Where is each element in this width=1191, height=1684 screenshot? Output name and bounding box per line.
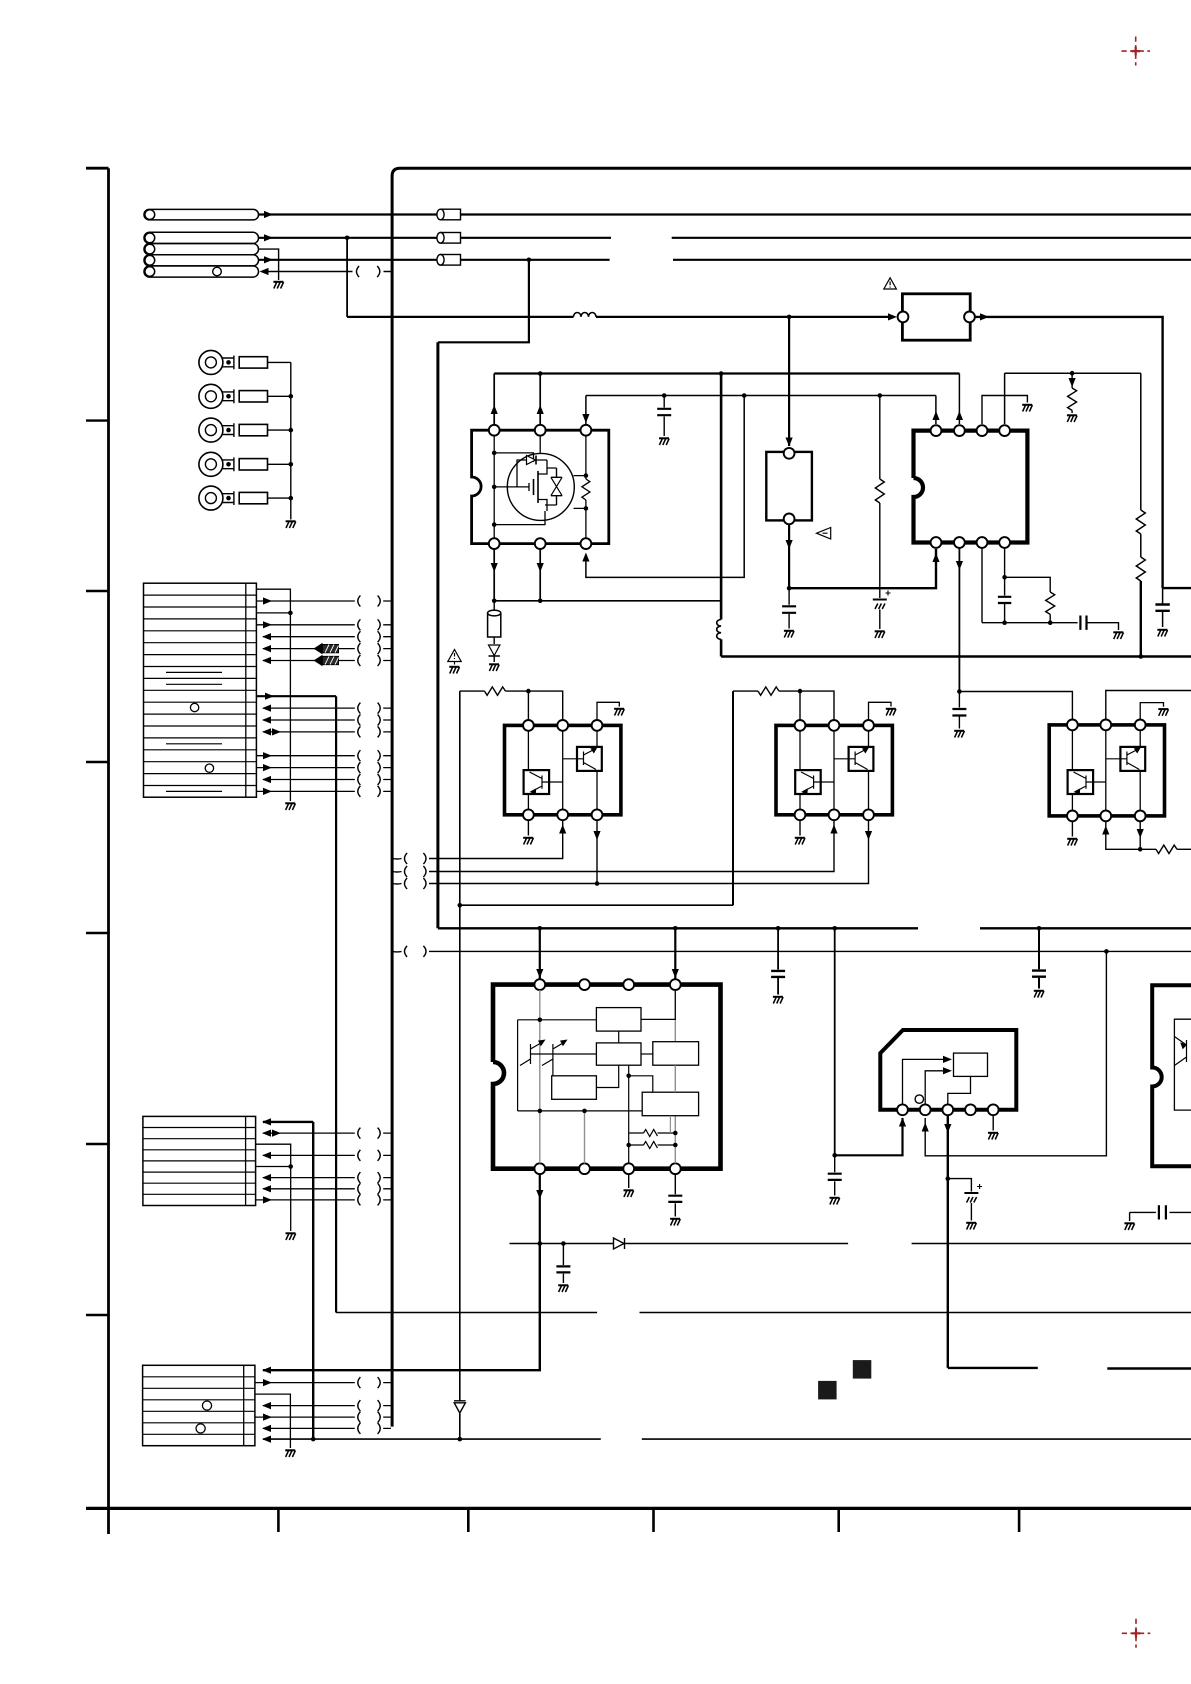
thick vertical 721 — [720, 374, 723, 620]
Q1 top pin 2 — [535, 425, 546, 436]
IC1 pin7 ground stem — [628, 1174, 630, 1188]
IC2 pin7 drop — [981, 548, 983, 623]
arrow up into M3 pin5 — [1102, 826, 1109, 835]
diode D2 on VFEED — [454, 1401, 466, 1413]
connector CN101 pill contact 1 — [144, 209, 259, 220]
M3 internal column 1 — [1071, 730, 1073, 810]
ground G4 — [489, 664, 499, 671]
Q1 bottom pin 6 — [581, 538, 592, 549]
riser IC2 pin4 — [1004, 373, 1006, 424]
capacitor C8 drop — [777, 928, 779, 994]
junction on W4 — [527, 258, 532, 263]
connector CN3 pin column divider — [243, 1365, 245, 1445]
M3 pin5 drive wire to edge — [1106, 821, 1156, 849]
connector CN1 pin column divider — [245, 583, 247, 797]
inductor L5 on vertical — [717, 620, 721, 640]
M2 bottom pin 5 — [829, 809, 840, 820]
arrow up on Q1 pin2 riser — [537, 405, 544, 414]
IC2 top pin 1 — [931, 425, 942, 436]
ground G16 — [1158, 709, 1168, 716]
connector CN101 pill 1 pin circle — [145, 210, 155, 220]
CN2 row7 wire — [263, 1188, 391, 1190]
wire W4 horizontal — [259, 259, 1191, 261]
M3 pin4 ground — [1071, 821, 1073, 836]
junction M2 pin1 riser — [798, 689, 803, 694]
wire fuse output to right — [975, 317, 1163, 588]
ground G24 — [988, 1133, 998, 1140]
arrow down Q1 pin4 — [491, 563, 498, 572]
IC1 pin4 supply drop — [674, 928, 676, 979]
capacitor C5 plates — [657, 409, 671, 415]
M1 pin5 drive drop — [429, 820, 563, 858]
rail yC right segment — [1005, 372, 1141, 374]
arrow up into M2 pin5 — [830, 825, 837, 834]
M2 internal column 3 — [868, 731, 870, 810]
arrow down from TH1 — [786, 540, 793, 549]
CN1 row7 wire — [263, 660, 391, 662]
page border left tick 4 — [86, 932, 109, 934]
arrow down from IC3 pin3 — [944, 1124, 951, 1133]
M1 top pin 1 — [523, 720, 534, 731]
capacitor C13 stem — [958, 692, 960, 729]
M1 internal column 1 — [527, 731, 529, 810]
arrow up into Q1 pin6 — [582, 553, 589, 562]
TH1 pin 1 — [784, 448, 795, 459]
IC2 pin6 long drop — [958, 548, 960, 692]
arrow into TH1 — [786, 438, 793, 447]
IC1 internal base row — [531, 1053, 597, 1055]
ground G12 — [523, 838, 533, 845]
transistor module M3 package — [1049, 725, 1164, 816]
page border bottom rule — [86, 1507, 1191, 1510]
ring terminal E4 — [199, 452, 223, 476]
main supply wire with inductor — [347, 316, 573, 318]
ground G11 — [614, 709, 624, 716]
arrow up into IC3 pin2 — [922, 1123, 929, 1132]
IC1 pin1 supply drop — [539, 928, 541, 979]
arrow down on M1 pin6 drop — [593, 831, 600, 840]
IC3 pin 4 — [965, 1104, 976, 1115]
M3 pin6 drop — [1139, 821, 1141, 849]
feed line y1312 — [336, 1312, 1191, 1314]
page border left tick 5 — [86, 1143, 109, 1145]
arrow down Q1 pin5 — [537, 563, 544, 572]
connector CN101 pill 5 pin circle — [145, 267, 155, 277]
ground G5 — [659, 438, 669, 445]
ferrite bead L1 on W1 — [441, 209, 461, 220]
CN1 row1 wire to ground column — [256, 589, 290, 801]
IC2 pin8 drop — [1004, 548, 1006, 577]
M2 internal column 1 — [799, 731, 801, 810]
arrow on W2 — [264, 234, 273, 241]
arrow into IC1 pin4 — [672, 969, 679, 978]
IC1 internal block B4 — [552, 1076, 597, 1100]
page border bottom tick 4 — [837, 1508, 840, 1532]
arrow up into IC2 pin2 — [956, 411, 963, 420]
IC1 internal top link — [518, 1019, 597, 1021]
capacitor C1 plates — [1155, 605, 1169, 611]
capacitor C15 — [834, 1155, 836, 1195]
IC2 top pin 4 — [999, 425, 1010, 436]
marker square 1 — [818, 1381, 837, 1400]
IC1 internal block B3 — [653, 1042, 699, 1066]
M1 pin3 ground loop — [597, 702, 619, 720]
M3 top pin 2 — [1100, 720, 1111, 731]
junction yA at vertical 721 — [719, 371, 724, 376]
arrow up into IC2 pin5 — [932, 553, 939, 562]
IC2 bottom pin 5 — [931, 537, 942, 548]
Q1 pin5 drop — [539, 549, 541, 601]
IC3 internal pin2 link — [925, 1071, 944, 1105]
warning symbol near F1 — [884, 278, 897, 289]
IC3 pin 5 — [988, 1104, 999, 1115]
CN3 row5 wire — [255, 1416, 391, 1418]
IC1 internal pin4 column — [674, 990, 676, 1163]
M3 internal column 3 — [1139, 730, 1141, 810]
Q1 internal source line — [494, 486, 529, 488]
CN1 row10 thick feed wire — [256, 695, 336, 697]
line y1439 left segment — [263, 1438, 601, 1440]
resistor R8 — [758, 687, 779, 695]
ground G7 — [875, 631, 885, 638]
ring terminal E3 — [199, 418, 223, 442]
Q1 internal link bottom — [494, 511, 545, 525]
feed net VFEED vertical — [459, 691, 461, 1439]
IC3 internal pin1 link — [903, 1059, 945, 1104]
feed vertical from row7 net — [312, 1122, 314, 1439]
junction to protector block — [787, 315, 792, 320]
sense line y951 from bus — [392, 950, 401, 953]
riser IC2 pin2 from yA — [958, 374, 960, 425]
capacitor C9 plates — [1032, 971, 1046, 977]
IC1 internal block B2 — [596, 1043, 641, 1065]
resistor column R2 top link — [878, 393, 883, 398]
IC1 bottom pin 7 — [623, 1163, 634, 1174]
IC1 package — [493, 985, 721, 1169]
page border bottom-left corner stub — [107, 1508, 110, 1534]
IC2 bottom pin 8 — [999, 537, 1010, 548]
CN2 row1 thick feed wire — [263, 1121, 313, 1123]
capacitor C8 plates — [771, 971, 785, 977]
page border bottom tick 2 — [467, 1508, 470, 1532]
power rail segment B — [980, 927, 1191, 929]
CN1 row3 wire — [256, 612, 290, 614]
resistor R9 — [1156, 845, 1177, 853]
IC3 internal output link — [948, 1076, 971, 1104]
arrow down into Q1 pin3 — [582, 414, 589, 423]
Q1 internal resistor R — [585, 436, 587, 539]
Q1 pin6 wire to block — [586, 396, 744, 578]
riser Q1 pin2 — [539, 374, 541, 426]
ground G1 — [273, 282, 283, 289]
main board outline top rule with rounded corner — [392, 168, 1191, 1426]
CN1 row4 wire — [256, 624, 391, 626]
TH1 pin 2 — [784, 514, 795, 525]
arrow down from IC1 pin5 — [536, 1190, 543, 1199]
M1 transistor Q2 box — [524, 770, 550, 794]
CN1 row2 wire — [256, 600, 391, 602]
arrow up into M1 pin5 — [559, 825, 566, 834]
CN3 row lines — [143, 1377, 255, 1435]
ground G17 — [1067, 839, 1077, 846]
IC3 output rail segments — [948, 1367, 1038, 1369]
CN2 row4 wire — [263, 1154, 391, 1156]
ferrite bead L3 on W4 — [441, 255, 461, 266]
IC1 bottom pin 8 — [670, 1163, 681, 1174]
IC1 internal resistor R10 — [644, 1130, 676, 1137]
CN3 key circle row 4 — [202, 1401, 211, 1410]
M3 bottom pin 4 — [1067, 811, 1078, 822]
CN3 row1 thick feed from IC1 output — [263, 1244, 540, 1371]
IC1 pin5 output drop — [539, 1174, 541, 1244]
M2 pin4 ground — [799, 820, 801, 835]
ground G20 — [624, 1190, 634, 1197]
fuse block F1 — [902, 294, 970, 340]
connector CN101 pill contact 2 — [144, 232, 259, 243]
IC1 internal B1-B2 link — [618, 1031, 620, 1043]
resistor R5 — [1136, 557, 1145, 581]
IC1 internal block B5 — [642, 1092, 698, 1116]
IC1 internal B1 right link — [641, 990, 675, 1019]
capacitor C9 drop — [1038, 928, 1040, 988]
Q1 internal zener links — [545, 468, 557, 505]
CN1 row13 wire double arrow — [263, 731, 391, 733]
electrolytic C2 body — [488, 613, 501, 637]
IC1 internal B2-B3 link — [641, 1053, 653, 1055]
IC1 internal pin2 column — [584, 1111, 586, 1164]
drive line 1 hooks — [423, 853, 426, 864]
ground G6 — [784, 631, 794, 638]
snubber link right — [1005, 577, 1051, 592]
wire W2 branch down — [346, 238, 348, 317]
wire W5 with left arrow — [266, 271, 391, 273]
resistor R6 — [1046, 592, 1055, 623]
polarized capacitor C16 — [948, 1179, 972, 1192]
Q1 internal pin1 column — [493, 436, 495, 539]
resistor R2 — [875, 479, 884, 503]
IC1 top pin 3 — [623, 979, 634, 990]
drive line 3 hooks — [423, 878, 426, 889]
IC4 package right edge — [1152, 985, 1191, 1166]
ground G14 — [795, 838, 805, 845]
connector CN101 pill contact 5 — [144, 266, 259, 277]
CN1 row12 wire — [263, 719, 391, 721]
M2 pin6 drop / line 3 — [429, 820, 869, 883]
warning mark triangle left — [817, 528, 831, 540]
CN3 row2 wire — [255, 1382, 391, 1384]
arrow into IC1 pin1 — [536, 969, 543, 978]
CN1 key circle row 16 — [205, 764, 213, 772]
page border top-left corner tick — [86, 167, 109, 170]
diode D1 to ground — [489, 645, 500, 656]
CN1 row5 wire — [263, 636, 391, 638]
CN3 row3 wire to ground column — [255, 1394, 291, 1448]
M2 transistor Q4 box — [795, 770, 821, 794]
Q6 symbol — [1074, 772, 1106, 792]
CN3 row6 wire — [263, 1427, 391, 1429]
ground G27 — [285, 803, 295, 810]
page border bottom tick 1 — [277, 1508, 280, 1532]
IC3 pin5 ground stem — [992, 1115, 994, 1130]
M2 top pin 2 — [829, 720, 840, 731]
CN1 key circle row 11 — [190, 703, 198, 711]
page border bottom tick 5 — [1018, 1508, 1021, 1532]
series capacitor C17 wire — [1130, 1211, 1191, 1213]
capacitor C1 stem — [1162, 588, 1164, 627]
junction on W2 — [345, 236, 350, 241]
M2 pin3 ground loop — [869, 702, 892, 720]
M3 top pin 3 — [1135, 720, 1146, 731]
Q1 internal zener pair — [551, 468, 562, 505]
ring terminal E1 — [199, 350, 223, 374]
connector CN101 pill 5 key circle — [213, 267, 222, 276]
riser Q1 pin3 from yB — [585, 396, 587, 425]
IC3 internal block — [954, 1053, 988, 1076]
CN1 skip marks rows 8/9/14/18 — [166, 672, 222, 791]
lower link rail — [494, 600, 721, 602]
capacitor C6 plates — [782, 606, 796, 613]
arrow into CN3 row7 — [262, 1436, 271, 1443]
ground G21 — [670, 1219, 680, 1226]
M1 internal column 3 — [596, 731, 598, 810]
IC2 top pin 2 — [954, 425, 965, 436]
CN1 row11 wire — [263, 707, 391, 709]
M1 top pin 3 — [592, 720, 603, 731]
CN1 row16 wire — [256, 767, 391, 769]
CN1 row17 wire — [263, 779, 391, 781]
Q1 internal gate link top — [494, 453, 533, 462]
page border left tick 1 — [86, 419, 109, 421]
junction rail/regulator feed — [832, 926, 837, 931]
M3 bottom pin 6 — [1135, 811, 1146, 822]
Q3 symbol — [563, 749, 596, 770]
resistor R3 — [1071, 373, 1073, 388]
resistor R4 — [1136, 510, 1145, 557]
wire branch to page edge — [1163, 587, 1191, 589]
M1 pin6 sense drop — [596, 820, 598, 883]
M1 bottom pin 4 — [523, 809, 534, 820]
M2 top pin 3 — [863, 720, 874, 731]
fuse F1 pin 2 — [964, 312, 975, 323]
ground G22 — [558, 1285, 568, 1292]
transistor module M1 package — [505, 725, 621, 814]
protector block TH1 body — [766, 452, 812, 521]
Q1 body diode D — [527, 456, 536, 465]
series capacitor C12 — [1080, 616, 1086, 630]
CN3 row4 wire — [263, 1405, 391, 1407]
ground G8 — [1022, 405, 1032, 412]
CN1 row15 wire — [256, 755, 391, 757]
IC1 top pin 2 — [579, 979, 590, 990]
junction rail/IC1 pin4 — [673, 926, 678, 931]
ground stub for C17 — [1129, 1212, 1131, 1221]
board inner feed rail vertical — [436, 342, 439, 928]
M2 internal column 2 — [833, 731, 835, 810]
junction C5 on yB — [662, 393, 667, 398]
line 4 from VFEED — [458, 903, 463, 908]
ferrite bead L2 on W2 — [441, 233, 461, 244]
capacitor C11 — [1004, 577, 1006, 622]
IC2 pin3 loop to ground — [982, 396, 1027, 425]
arrow into fuse — [888, 313, 897, 320]
M1 bottom pin 6 — [592, 809, 603, 820]
arrow on W4 — [264, 256, 273, 263]
ground G19 — [1034, 991, 1044, 998]
ground G10 — [1113, 632, 1123, 639]
M2 transistor Q5 box — [849, 747, 874, 771]
Q1 internal MOSFET gate bars — [534, 471, 539, 503]
ground G23 — [830, 1198, 840, 1205]
IC3 pin 3 — [942, 1104, 953, 1115]
inductor L4 — [574, 312, 597, 316]
rail yA horizontal — [494, 372, 959, 374]
IC1 internal block B1 — [596, 1008, 641, 1032]
supply wire cont. — [596, 316, 889, 318]
arrow down from IC2 pin6 — [956, 561, 963, 570]
IC3 key circle — [915, 1095, 923, 1103]
M2 bottom pin 6 — [863, 809, 874, 820]
M3 bottom pin 5 — [1100, 811, 1111, 822]
Q1 bottom pin 4 — [489, 538, 500, 549]
arrow out of fuse — [980, 313, 989, 320]
IC1 internal transistor pair Q8 — [520, 1042, 566, 1066]
M3 pin3 ground loop — [1140, 703, 1163, 720]
line y1439 right segment — [642, 1438, 1191, 1440]
page border left rule — [107, 168, 110, 1508]
ring terminal common bus — [290, 362, 292, 519]
ground G26 — [1124, 1223, 1134, 1230]
capacitor C10 — [562, 1244, 564, 1284]
fuse F1 pin 1 — [898, 312, 909, 323]
CN1 row6 wire — [263, 648, 391, 650]
M2 bottom pin 4 — [795, 809, 806, 820]
M3 transistor Q6 box — [1068, 770, 1094, 794]
IC2 bottom pin 6 — [954, 537, 965, 548]
Q4 symbol — [801, 772, 834, 792]
IC3 pin 1 — [897, 1104, 908, 1115]
wire W1 horizontal — [259, 213, 1191, 215]
ground G29 — [285, 1450, 295, 1457]
Q5 symbol — [834, 749, 868, 770]
Q1 internal pin2 stub — [539, 436, 541, 453]
main bus horizontal — [721, 655, 1191, 658]
protector block TH1 drop — [788, 317, 790, 446]
Q2 symbol — [530, 772, 563, 792]
IC1 internal pin1 column — [539, 990, 541, 1163]
IC1 internal left loop — [517, 1020, 519, 1111]
M2 top pin 1 — [795, 720, 806, 731]
registration crosshair bottom-right — [1122, 1619, 1151, 1648]
connector CN101 pill contact 3 — [144, 244, 259, 255]
page border left tick 2 — [86, 590, 109, 592]
junction y951/reg return — [1104, 949, 1109, 954]
junction yC / resistor R3 — [1070, 371, 1075, 376]
Q1 internal body diode loop — [517, 460, 547, 487]
M1 internal column 2 — [562, 731, 564, 810]
capacitor C5 stem — [663, 396, 665, 437]
divider column R4/R5 — [1140, 373, 1142, 510]
CN2 row5 wire to ground column — [256, 1166, 291, 1168]
M1 top pin 2 — [557, 720, 568, 731]
Q1 internal transistor body circle — [507, 453, 574, 520]
page border left tick 6 — [86, 1314, 109, 1316]
riser IC2 pin1 from yB — [935, 396, 937, 425]
IC1 internal resistor R11 — [644, 1142, 676, 1149]
Q1 bottom pin 5 — [535, 538, 546, 549]
warning symbol with ground at feed head — [448, 650, 461, 662]
Q1 pin4 drop — [493, 549, 495, 601]
ground G3 — [1157, 630, 1167, 637]
